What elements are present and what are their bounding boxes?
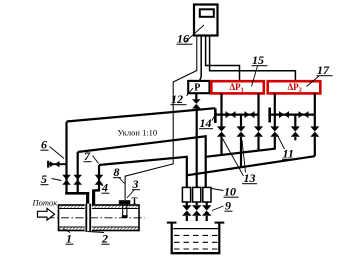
- wire w4: device 16 to transmitter dP2: [210, 36, 296, 82]
- wire w3: device 16 to transmitter dP1: [206, 36, 240, 82]
- impulse line L1 (upstream) to manifold 1: [67, 108, 216, 121]
- label 4: [98, 181, 110, 195]
- label 17: [307, 63, 333, 87]
- svg-text:12: 12: [171, 92, 183, 106]
- manifold 2 valve A (bowtie): [279, 111, 289, 118]
- purge valve 6 end tick: [47, 161, 49, 168]
- flow arrow: [38, 208, 55, 220]
- shutoff valve 5a on riser 1 (hourglass): [62, 175, 71, 185]
- purge valve 6 (bowtie): [50, 161, 60, 167]
- collector C2 to vessel 3: [206, 149, 275, 157]
- pipe centerline: [47, 217, 145, 219]
- label 5: [41, 172, 62, 186]
- dP2 port 2 drop: [314, 93, 316, 126]
- label 16: [177, 25, 205, 46]
- svg-text:2: 2: [101, 232, 108, 246]
- drain valve row v2 (hourglass): [237, 126, 246, 136]
- svg-text:9: 9: [225, 199, 231, 213]
- secondary instrument U16 box: [194, 5, 218, 36]
- drain line from valve 12 down to vessel 2: [196, 109, 198, 188]
- drain drop below v6: [314, 137, 316, 156]
- tap bar 1 (upstream taps header): [65, 192, 89, 195]
- drain drop below v1: [220, 137, 222, 156]
- svg-text:Уклон 1:10: Уклон 1:10: [118, 128, 158, 138]
- riser 3: [98, 165, 100, 192]
- manifold 1 end tick: [214, 108, 217, 123]
- svg-text:3: 3: [132, 177, 139, 191]
- label 7: [84, 149, 99, 164]
- impulse line L2 (downstream) to gauge line: [78, 136, 206, 187]
- drain stub below v5: [294, 137, 296, 141]
- shutoff valve 5b on riser 2 (hourglass): [73, 175, 82, 185]
- drain valve row v3 (hourglass): [254, 126, 263, 136]
- impulse line L3 to vessel 1: [99, 157, 187, 187]
- label 2: [88, 232, 110, 246]
- vessel 10a: [182, 187, 190, 202]
- label 8: [113, 165, 125, 184]
- tank left wall: [171, 222, 173, 254]
- svg-text:13: 13: [244, 171, 256, 185]
- label 3: [127, 177, 140, 198]
- thermowell stem: [122, 204, 128, 217]
- label 11: [277, 135, 296, 161]
- riser 1: [65, 122, 67, 195]
- svg-text:14: 14: [200, 116, 212, 130]
- shutoff valve on riser 3 (hourglass): [95, 175, 104, 185]
- svg-text:15: 15: [252, 53, 264, 67]
- drain drop below v2: [240, 137, 242, 168]
- pipe body: [59, 205, 140, 231]
- tank right wall: [218, 222, 220, 254]
- svg-text:7: 7: [84, 149, 91, 163]
- svg-text:Т: Т: [132, 196, 138, 206]
- label 15: [252, 53, 268, 87]
- svg-text:Р: Р: [194, 82, 200, 93]
- dp transmitter dP1 red box: [211, 81, 263, 93]
- discharge stub 9b: [196, 216, 198, 221]
- drain drop below v4: [274, 137, 276, 150]
- drain valve row v5 (hourglass): [291, 126, 300, 136]
- drain drop below v3: [257, 137, 259, 151]
- drain valve 9b (hourglass): [192, 205, 201, 216]
- tank left flange: [167, 222, 177, 224]
- label 9: [212, 199, 233, 213]
- vessel 10c: [203, 187, 211, 202]
- water dashed line 3: [174, 248, 218, 250]
- manifold 1 valve B (bowtie): [245, 111, 255, 118]
- manifold 1 line: [214, 113, 258, 115]
- discharge stub 9a: [186, 216, 188, 221]
- pressure gauge P box: [188, 81, 209, 94]
- drain valve row v1 (hourglass): [217, 126, 226, 136]
- manifold 2 valve B (bowtie): [299, 111, 309, 118]
- orifice plate 2: [85, 204, 92, 232]
- wire w1: signal line from thermometer T to device 16: [125, 36, 197, 201]
- dp transmitter dP2 red box: [268, 81, 321, 93]
- dP1 port 2 drop: [257, 93, 259, 126]
- drain valve row v6 (hourglass): [310, 126, 319, 136]
- svg-text:4: 4: [101, 181, 108, 195]
- water dashed line 2: [174, 241, 218, 243]
- stub vessel 3 to valve 9c: [206, 202, 208, 205]
- tap drop 1 into orifice flange: [86, 193, 89, 206]
- stub vessel 1 to valve 9a: [186, 202, 188, 205]
- tank right flange: [215, 222, 225, 224]
- purge valve 6 stub: [48, 163, 67, 165]
- dP1 port 1 drop: [220, 93, 222, 126]
- svg-text:Поток: Поток: [32, 198, 59, 208]
- riser 2: [77, 152, 79, 195]
- drain valve 9a (hourglass): [182, 205, 191, 216]
- label 12: [171, 88, 194, 106]
- label 10: [212, 185, 239, 199]
- discharge stub 9c: [206, 216, 208, 221]
- label 6: [41, 138, 65, 159]
- water surface line: [173, 228, 218, 230]
- label 1: [63, 229, 74, 246]
- dP1 manifold tee drop: [240, 115, 242, 127]
- water dashed line 1: [174, 234, 218, 236]
- tap drop 2 into orifice flange: [92, 190, 95, 206]
- drain valve row v4 (hourglass): [270, 126, 279, 136]
- svg-text:10: 10: [224, 185, 236, 199]
- svg-text:6: 6: [41, 138, 47, 152]
- svg-text:5: 5: [41, 172, 47, 186]
- svg-text:1: 1: [66, 232, 72, 246]
- vessel 10b: [193, 187, 201, 202]
- wire w2: device 16 to gauge P: [200, 36, 201, 81]
- label 14: [199, 113, 217, 131]
- tank bottom: [171, 252, 221, 254]
- dP2 manifold tee drop: [294, 115, 296, 127]
- drain valve 9c (hourglass): [202, 205, 211, 216]
- manifold 1 valve A (bowtie): [226, 111, 236, 118]
- collector C3 to vessel 1: [187, 156, 315, 175]
- svg-text:17: 17: [317, 63, 330, 77]
- tap bar 2 (downstream tap header): [94, 189, 99, 191]
- svg-text:8: 8: [114, 165, 120, 179]
- thermowell head: [119, 200, 131, 204]
- dP2 port 1 drop: [274, 93, 276, 126]
- valve 12 under gauge P: [192, 93, 201, 108]
- stub vessel 2 to valve 9b: [196, 202, 198, 205]
- svg-text:16: 16: [177, 32, 189, 46]
- manifold 2 line: [269, 113, 315, 115]
- label 13: [223, 139, 258, 186]
- manifold 2 end tick: [268, 108, 271, 123]
